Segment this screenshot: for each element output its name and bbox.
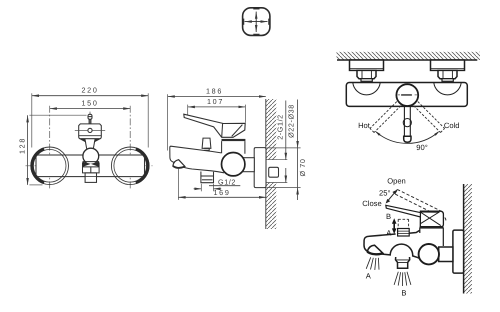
drop shade bbox=[173, 166, 185, 168]
dim 128 extension bottom bbox=[29, 184, 42, 186]
ceiling wall hatch band bbox=[337, 52, 481, 60]
left escutcheon dark rim bbox=[32, 149, 44, 183]
right escutcheon dark rim bbox=[136, 149, 148, 183]
aerator bbox=[85, 173, 96, 183]
hub bottom dark band bbox=[420, 227, 444, 229]
dim 186 extension left bbox=[167, 94, 169, 150]
left boss arc bbox=[353, 83, 380, 95]
crosshair vertical arrows bbox=[255, 12, 257, 32]
diverter knob dashed up position bbox=[398, 219, 408, 228]
svg-text:186: 186 bbox=[206, 86, 223, 95]
handle knob bbox=[88, 114, 92, 119]
dim 220 extension right bbox=[147, 93, 149, 147]
bottom outlet collar bbox=[396, 257, 410, 268]
plate lower line bbox=[79, 135, 102, 137]
svg-text:Ø 70: Ø 70 bbox=[298, 159, 307, 177]
svg-text:B: B bbox=[401, 288, 406, 297]
view: side operation view open-close bbox=[362, 177, 472, 298]
centerline tick left bbox=[243, 19, 245, 25]
handle ball bbox=[403, 119, 411, 127]
cartridge circle bbox=[222, 153, 245, 176]
hub inner diagonal bbox=[232, 125, 243, 137]
outlet lines bbox=[396, 260, 409, 263]
bar bottom edge through aerator bbox=[85, 176, 96, 178]
label 2-G1/2 leader line bbox=[285, 101, 287, 160]
handle stem bbox=[89, 119, 91, 124]
right plate inner line bbox=[431, 68, 465, 70]
svg-text:Open: Open bbox=[387, 177, 406, 186]
lower arrow of pipe dim bbox=[285, 168, 287, 183]
wall line bbox=[463, 184, 465, 294]
spout drop tip bbox=[173, 160, 185, 168]
left plate inner line bbox=[350, 68, 384, 70]
left eccentric plate bbox=[350, 60, 384, 70]
svg-text:220: 220 bbox=[81, 86, 98, 95]
connector to flange bbox=[439, 247, 453, 262]
right boss arc bbox=[434, 83, 461, 95]
plate center circle bbox=[88, 128, 92, 132]
knob stripes bbox=[398, 231, 410, 234]
left nut bbox=[357, 70, 376, 78]
dia70 lower arrow bbox=[297, 188, 299, 201]
right nut facets bbox=[443, 70, 452, 78]
lever and hub bbox=[184, 114, 245, 137]
svg-text:Cold: Cold bbox=[444, 121, 460, 130]
plate corner shade right bbox=[94, 139, 101, 143]
centerline extension right circle bbox=[129, 106, 131, 190]
svg-text:128: 128 bbox=[17, 137, 26, 154]
body top right segment bbox=[409, 230, 420, 233]
cartridge circle bbox=[419, 244, 439, 264]
logo bar bbox=[401, 94, 412, 96]
wall line bbox=[265, 99, 267, 229]
handle vertical centerline bbox=[89, 112, 91, 124]
handle grip cap bbox=[404, 136, 411, 142]
arc arrow left bbox=[375, 131, 380, 136]
dim 220 extension left bbox=[31, 93, 33, 147]
spout drop tip dark bbox=[367, 245, 383, 254]
dashed handle position left bbox=[370, 102, 401, 133]
housing split line bbox=[90, 167, 92, 173]
dim 107 extension right bbox=[244, 105, 246, 123]
left collar dark bbox=[361, 79, 372, 82]
handle knob squircle outline bbox=[243, 8, 270, 36]
centerline tick top bbox=[253, 8, 259, 10]
dim 128 line bbox=[27, 115, 29, 185]
hub diagonals bbox=[421, 212, 441, 226]
diverter knob bbox=[202, 138, 211, 148]
cartridge cap circle bbox=[396, 84, 418, 106]
svg-text:Ø22-Ø38: Ø22-Ø38 bbox=[287, 104, 296, 138]
centerline tick right bbox=[268, 19, 270, 25]
view: side view of mixer with wall bbox=[168, 86, 307, 229]
label G1/2 underline bbox=[209, 185, 240, 187]
wall hatch band bbox=[464, 184, 472, 294]
solid lever close bbox=[386, 205, 421, 217]
plate centerline stubs bbox=[75, 129, 88, 131]
svg-text:150: 150 bbox=[81, 99, 98, 108]
dia70 extension top bbox=[267, 147, 301, 149]
horizontal centerline bbox=[26, 165, 153, 167]
dashed lever open position bbox=[395, 189, 446, 221]
supply elbow behind wall bbox=[269, 167, 279, 177]
rotation arc 90deg bbox=[376, 132, 438, 143]
spout and body outline bbox=[170, 146, 224, 173]
hub bottom dark band bbox=[222, 139, 246, 141]
svg-text:Hot: Hot bbox=[358, 121, 371, 130]
spray A lines bbox=[366, 257, 379, 270]
view: handle top view (squircle) bbox=[243, 8, 270, 36]
right nut bbox=[438, 70, 457, 78]
mixing ball bbox=[83, 148, 99, 164]
plate corner shade left bbox=[79, 139, 86, 143]
outlet collar lines bbox=[201, 175, 214, 177]
right escutcheon inner circle bbox=[114, 150, 147, 183]
dim 220 line bbox=[32, 95, 148, 97]
dim 107 line bbox=[188, 106, 246, 108]
label dia22-dia38 leader line bbox=[297, 100, 299, 148]
centerline tick bottom bbox=[253, 33, 259, 35]
hub left edge bbox=[221, 124, 224, 138]
body tube bbox=[346, 83, 467, 107]
svg-text:G1/2: G1/2 bbox=[218, 177, 236, 186]
view: top view hot-cold operation bbox=[337, 52, 481, 152]
body bar bbox=[36, 155, 145, 177]
arc arrow right bbox=[434, 131, 439, 136]
dim 169 line bbox=[178, 196, 265, 198]
wall flange bbox=[453, 230, 464, 273]
hub top dark edge bbox=[420, 211, 439, 213]
dim 128 extension top bbox=[29, 114, 86, 116]
dim G1/2 tick right bbox=[213, 184, 215, 192]
supply pipe lines bbox=[266, 159, 287, 161]
bottom outlet bbox=[201, 172, 214, 183]
dark seal bowtie bbox=[83, 162, 100, 167]
cartridge column bbox=[420, 228, 444, 246]
dim 107 extension left bbox=[187, 105, 189, 118]
lever plate bbox=[79, 124, 102, 139]
dim 169 extension left bbox=[177, 169, 179, 200]
knob mid line bbox=[88, 116, 92, 118]
double arrow diverter bbox=[393, 223, 395, 230]
left escutcheon outer circle bbox=[31, 147, 69, 185]
svg-text:2-G1/2: 2-G1/2 bbox=[275, 114, 284, 140]
dia70 extension bottom bbox=[267, 187, 301, 189]
handle stem down bbox=[404, 107, 410, 137]
spout housing bbox=[83, 163, 100, 173]
svg-text:90°: 90° bbox=[416, 143, 427, 152]
svg-text:25°: 25° bbox=[379, 189, 390, 198]
arrowhead to close bbox=[386, 199, 391, 204]
spray B lines bbox=[394, 272, 411, 286]
knob base bbox=[204, 148, 209, 150]
25deg double arrow bbox=[388, 193, 395, 201]
svg-text:B: B bbox=[386, 212, 391, 221]
body outline bbox=[364, 234, 423, 262]
handle neck bbox=[85, 139, 95, 149]
wall hatch upper bbox=[266, 99, 277, 160]
wall hatch lower bbox=[266, 183, 277, 230]
wall edge line bbox=[337, 59, 477, 61]
hub block bbox=[420, 211, 443, 226]
dim G1/2 tick left bbox=[200, 184, 202, 192]
arrowhead to open bbox=[392, 190, 397, 195]
centerline extension left circle bbox=[49, 106, 51, 190]
dia70 dim line body bbox=[297, 148, 299, 188]
dim 150 line bbox=[50, 108, 131, 110]
right escutcheon outer circle bbox=[111, 147, 149, 185]
right eccentric plate bbox=[431, 60, 465, 70]
diverter knob solid bbox=[398, 229, 410, 237]
left nut facets bbox=[362, 70, 371, 78]
svg-text:107: 107 bbox=[207, 97, 224, 106]
dim 186 line bbox=[168, 96, 266, 98]
connector to flange bbox=[242, 158, 254, 172]
view: front view of mixer bbox=[17, 86, 152, 190]
svg-text:169: 169 bbox=[213, 188, 230, 197]
dim G1/2 arrows bbox=[194, 188, 202, 190]
wall flange bbox=[254, 148, 266, 188]
dashed handle position right bbox=[414, 102, 445, 133]
logo side ticks bbox=[398, 94, 418, 96]
right collar dark bbox=[442, 79, 453, 82]
crosshair horizontal arrows bbox=[245, 21, 268, 23]
cartridge column bbox=[222, 141, 245, 154]
seal band lines bbox=[83, 161, 100, 163]
svg-text:Close: Close bbox=[362, 199, 381, 208]
left escutcheon inner circle bbox=[33, 150, 66, 183]
